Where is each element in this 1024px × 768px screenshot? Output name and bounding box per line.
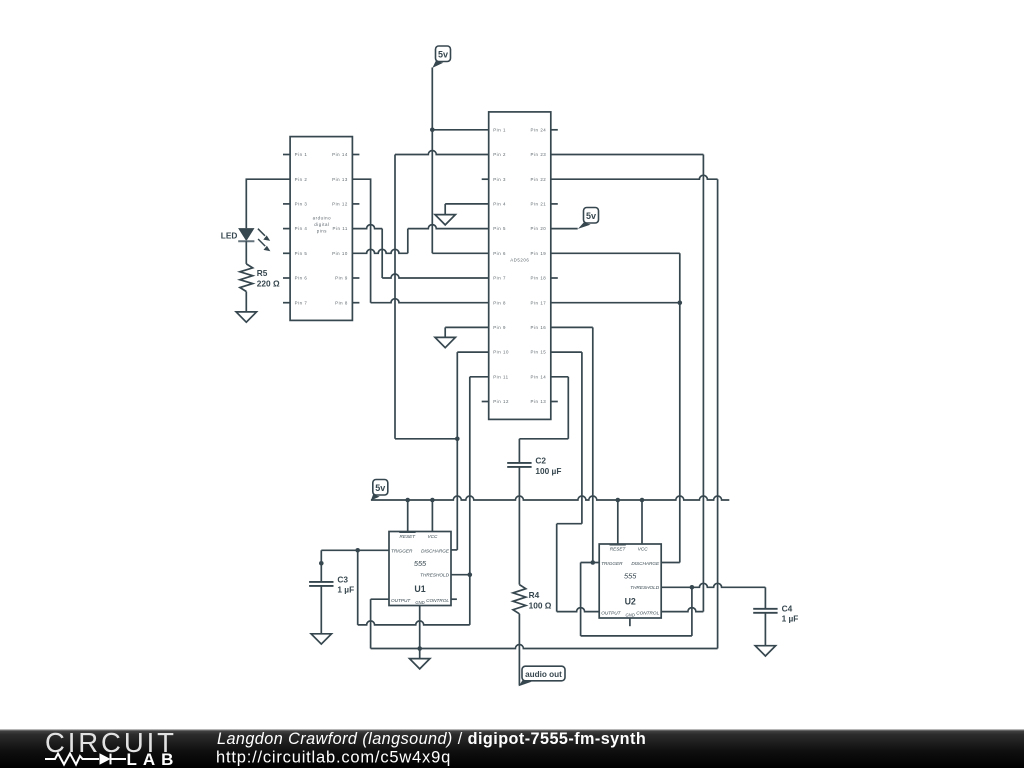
- svg-text:Pin 9: Pin 9: [335, 276, 348, 281]
- wire AD5206 pin1: [432, 129, 488, 131]
- svg-text:Pin 10: Pin 10: [332, 251, 348, 256]
- junction U1 trigger: [355, 548, 360, 553]
- svg-text:Pin 9: Pin 9: [493, 325, 506, 330]
- svg-text:U1: U1: [414, 584, 425, 594]
- svg-text:RESET: RESET: [400, 534, 417, 539]
- svg-text:Pin 12: Pin 12: [493, 399, 509, 404]
- junction U1 reset rail: [405, 498, 410, 503]
- svg-text:Pin 4: Pin 4: [295, 226, 308, 231]
- label R5 220: [257, 268, 280, 288]
- svg-text:CONTROL: CONTROL: [636, 611, 659, 616]
- resistor R5: [240, 264, 253, 292]
- wire U2 trigger link: [581, 563, 600, 636]
- ground at AD5206 pin9: [435, 337, 455, 347]
- svg-text:Pin 11: Pin 11: [493, 374, 508, 379]
- IC1 arduino digital pins: [290, 137, 352, 321]
- junction node A: [455, 437, 460, 442]
- wire C2 to R4: [518, 467, 520, 585]
- stub U1 control: [451, 598, 457, 600]
- capacitor C3: [309, 582, 333, 586]
- power flag 5v at AD5206 pin20: [551, 208, 599, 229]
- svg-text:555: 555: [414, 559, 427, 568]
- ground below C4: [755, 646, 775, 656]
- svg-text:Pin 14: Pin 14: [531, 374, 547, 379]
- svg-text:TRIGGER: TRIGGER: [601, 561, 623, 566]
- AD5206 left pin stubs: [482, 179, 489, 401]
- IC1 left pin stubs: [283, 155, 290, 303]
- svg-text:AD5206: AD5206: [510, 257, 529, 262]
- junction U2 trigger: [591, 560, 596, 565]
- svg-text:100 µF: 100 µF: [535, 466, 561, 476]
- wire output/gnd rail: [371, 645, 718, 649]
- junction U2 threshold: [690, 585, 695, 590]
- svg-text:R5: R5: [257, 268, 268, 278]
- svg-text:Pin 22: Pin 22: [531, 177, 547, 182]
- svg-text:Langdon Crawford (langsound) /: Langdon Crawford (langsound) / digipot-7…: [217, 730, 646, 748]
- svg-text:Pin 2: Pin 2: [493, 152, 506, 157]
- wire LED cathode to R5: [245, 241, 247, 264]
- svg-text:digital: digital: [314, 222, 329, 227]
- svg-text:Pin 6: Pin 6: [295, 276, 308, 281]
- svg-text:Pin 12: Pin 12: [332, 202, 348, 207]
- wire IC1 pin11 to AD5206 pin7: [352, 225, 488, 278]
- svg-text:1 µF: 1 µF: [782, 614, 799, 624]
- svg-text:Pin 18: Pin 18: [531, 276, 547, 281]
- svg-text:Pin 2: Pin 2: [295, 177, 308, 182]
- svg-text:Pin 8: Pin 8: [335, 300, 348, 305]
- wire C4 to ground: [764, 613, 766, 646]
- svg-text:Pin 11: Pin 11: [332, 226, 347, 231]
- svg-text:Pin 24: Pin 24: [531, 127, 547, 132]
- svg-text:Pin 19: Pin 19: [531, 251, 547, 256]
- wire AD5206 pin22 to output/gnd rail: [551, 175, 718, 648]
- svg-text:Pin 13: Pin 13: [531, 399, 547, 404]
- svg-text:C2: C2: [535, 456, 546, 466]
- wire AD5206 pin10 to U1 discharge: [451, 352, 489, 550]
- wire AD5206 pin4 to ground: [445, 204, 489, 215]
- wire AD5206 pin23 to U2 control: [551, 155, 704, 612]
- svg-text:Pin 5: Pin 5: [493, 226, 506, 231]
- power flag 5v top: [432, 46, 450, 68]
- label C2 100uF: [535, 456, 561, 476]
- junction U1 vcc rail: [430, 498, 435, 503]
- wire IC1 pin10 to AD5206 pin5: [352, 225, 488, 254]
- svg-text:5v: 5v: [438, 49, 448, 59]
- wire IC1 pin13 to AD5206 pin8: [352, 179, 488, 303]
- wire U2 threshold to C4: [661, 583, 765, 609]
- wire U1 threshold: [451, 574, 470, 576]
- wire U1 output to rail: [371, 599, 389, 648]
- svg-text:DISCHARGE: DISCHARGE: [421, 549, 450, 554]
- junction U1 gnd rail: [417, 646, 422, 651]
- svg-text:Pin 13: Pin 13: [332, 177, 348, 182]
- footer CircuitLab bar: [0, 727, 1024, 768]
- power flag 5v rail: [371, 480, 388, 501]
- stub U2 gnd: [629, 618, 631, 626]
- svg-text:DISCHARGE: DISCHARGE: [631, 561, 660, 566]
- wire U1 gnd to ground: [419, 606, 421, 659]
- wire U1 vcc: [431, 500, 433, 532]
- wire AD5206 pin17: [551, 302, 680, 304]
- svg-text:audio out: audio out: [525, 670, 562, 679]
- ground below C3: [311, 634, 331, 644]
- svg-text:R4: R4: [529, 590, 540, 600]
- wire 5v to AD5206 pin1/pin6: [432, 68, 488, 254]
- svg-text:C3: C3: [337, 574, 348, 584]
- svg-text:arduino: arduino: [313, 215, 332, 220]
- svg-text:Pin 4: Pin 4: [493, 202, 506, 207]
- svg-text:Pin 8: Pin 8: [493, 300, 506, 305]
- svg-text:5v: 5v: [375, 483, 385, 493]
- svg-text:LAB: LAB: [127, 750, 180, 768]
- wire AD5206 pin15 to U2 output: [551, 352, 599, 611]
- ground below U1: [410, 659, 430, 669]
- wire 5v rail: [371, 496, 729, 500]
- svg-text:Pin 14: Pin 14: [332, 152, 348, 157]
- label C4 1uF: [782, 603, 799, 623]
- AD5206 right pin stubs: [551, 130, 558, 402]
- svg-text:Pin 6: Pin 6: [493, 251, 506, 256]
- svg-text:Pin 23: Pin 23: [531, 152, 547, 157]
- label C3 1uF: [337, 574, 354, 594]
- junction AD5206 pin17: [678, 300, 683, 305]
- label LED: [221, 231, 238, 241]
- wire R5 to ground: [245, 292, 247, 312]
- wire U2 reset: [617, 500, 619, 544]
- wire AD5206 pin16 to U2 trigger: [551, 327, 593, 562]
- label R4 100: [529, 590, 552, 610]
- wire U1 trigger to C3: [321, 550, 389, 582]
- LED D1: [238, 229, 270, 252]
- svg-text:U2: U2: [625, 597, 636, 607]
- svg-text:1 µF: 1 µF: [337, 585, 354, 595]
- IC1 right pin stubs: [352, 155, 359, 303]
- svg-text:TRIGGER: TRIGGER: [391, 549, 413, 554]
- svg-text:Pin 21: Pin 21: [531, 202, 547, 207]
- flag audio out: [519, 666, 565, 686]
- capacitor C4: [753, 609, 777, 613]
- wire AD5206 pin19 to U2 discharge: [551, 253, 680, 562]
- svg-text:RESET: RESET: [610, 547, 627, 552]
- IC2 AD5206: [489, 112, 551, 420]
- wire AD5206 pin2 to node A: [395, 151, 489, 439]
- svg-text:Pin 7: Pin 7: [295, 300, 308, 305]
- junction AD5206 pin1: [430, 128, 435, 133]
- op-amp U2 555 timer: [599, 544, 661, 618]
- svg-text:VCC: VCC: [428, 534, 439, 539]
- svg-text:Pin 5: Pin 5: [295, 251, 308, 256]
- svg-text:CONTROL: CONTROL: [426, 598, 449, 603]
- svg-text:THRESHOLD: THRESHOLD: [420, 573, 450, 578]
- wire AD5206 pin9 to ground: [445, 327, 489, 337]
- svg-text:Pin 1: Pin 1: [295, 152, 308, 157]
- svg-text:Pin 20: Pin 20: [531, 226, 547, 231]
- wire AD5206 pin11 to U1 threshold/trigger: [470, 377, 489, 625]
- svg-text:pins: pins: [317, 228, 328, 233]
- svg-text:GND: GND: [626, 613, 635, 618]
- svg-text:VCC: VCC: [638, 547, 649, 552]
- wire U2 trigger-threshold link: [581, 587, 692, 636]
- wire trigger to pin11 link: [358, 550, 470, 625]
- svg-text:Pin 16: Pin 16: [531, 325, 547, 330]
- svg-text:http://circuitlab.com/c5w4x9q: http://circuitlab.com/c5w4x9q: [216, 749, 451, 767]
- svg-text:555: 555: [624, 572, 637, 581]
- junction U1 threshold: [468, 572, 473, 577]
- svg-text:LED: LED: [221, 231, 238, 241]
- svg-text:THRESHOLD: THRESHOLD: [630, 585, 660, 590]
- wire R4 to audio out: [518, 614, 520, 686]
- svg-text:OUTPUT: OUTPUT: [391, 598, 411, 603]
- wire IC1 pin2 to LED anode: [246, 179, 290, 228]
- svg-text:Pin 3: Pin 3: [295, 202, 308, 207]
- svg-text:OUTPUT: OUTPUT: [601, 611, 621, 616]
- wire C3 to ground: [320, 586, 322, 634]
- ground below R5: [236, 312, 256, 322]
- wire AD5206 pin14 to C2: [519, 377, 568, 463]
- svg-text:Pin 10: Pin 10: [493, 350, 509, 355]
- svg-text:Pin 17: Pin 17: [531, 300, 547, 305]
- ground at AD5206 pin4: [435, 215, 455, 225]
- svg-text:100 Ω: 100 Ω: [529, 600, 552, 610]
- junction U2 vcc rail: [640, 498, 645, 503]
- op-amp U1 555 timer: [389, 532, 451, 606]
- svg-text:Pin 7: Pin 7: [493, 276, 506, 281]
- junction U2 reset rail: [616, 498, 621, 503]
- svg-text:Pin 3: Pin 3: [493, 177, 506, 182]
- svg-text:220 Ω: 220 Ω: [257, 278, 280, 288]
- capacitor C2: [507, 463, 531, 467]
- svg-text:GND: GND: [415, 600, 424, 605]
- svg-text:5v: 5v: [586, 211, 596, 221]
- junction C3 riser: [319, 561, 324, 566]
- svg-text:Pin 1: Pin 1: [493, 127, 506, 132]
- wire U2 vcc: [641, 500, 643, 544]
- resistor R4: [513, 585, 526, 614]
- wire U1 reset: [407, 500, 409, 532]
- svg-text:Pin 15: Pin 15: [531, 350, 547, 355]
- svg-text:C4: C4: [782, 603, 793, 613]
- wire node A to discharge riser: [395, 438, 457, 440]
